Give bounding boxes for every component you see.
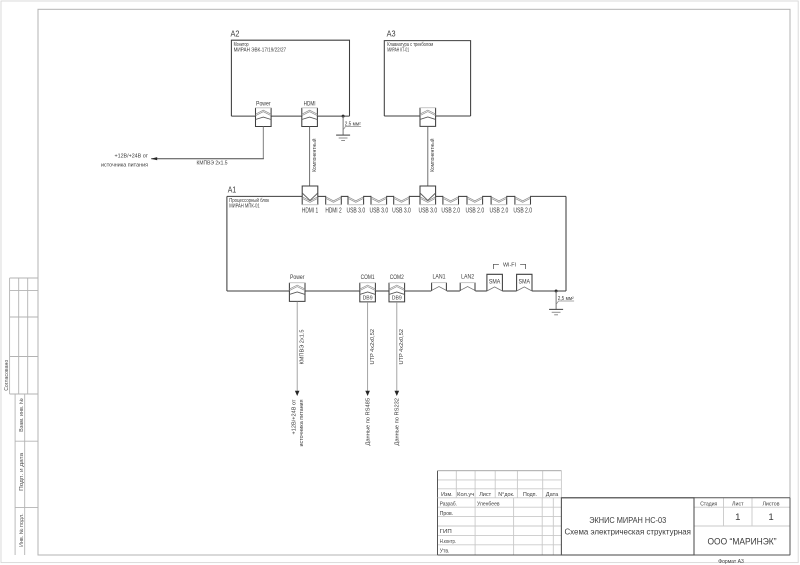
connector LAN1 socket <box>432 283 447 291</box>
svg-text:HDMI 2: HDMI 2 <box>325 207 341 214</box>
svg-text:Согласовано: Согласовано <box>4 360 10 391</box>
svg-text:COM2: COM2 <box>390 274 404 281</box>
svg-text:Листов: Листов <box>763 501 780 507</box>
svg-text:USB 3.0: USB 3.0 <box>418 207 437 214</box>
label USB 2.0 <box>441 207 460 214</box>
label data RS232 <box>395 398 401 446</box>
svg-text:Утв.: Утв. <box>440 548 450 554</box>
svg-text:КМПВЭ 2х1.5: КМПВЭ 2х1.5 <box>197 161 228 167</box>
svg-text:A3: A3 <box>387 29 396 39</box>
block A2 name text <box>234 42 287 54</box>
wire A2 power down <box>262 127 264 159</box>
title block grid <box>438 471 791 555</box>
label Power A2 <box>256 100 271 107</box>
svg-text:SMA: SMA <box>519 279 531 286</box>
svg-text:Н.контр.: Н.контр. <box>440 539 457 545</box>
block A2 monitor <box>231 40 349 116</box>
connector HDMI 1 socket on A1 top <box>302 196 318 205</box>
label COM1 <box>361 274 375 281</box>
label power source text <box>101 154 149 169</box>
label cable UTP COM2 <box>399 329 405 365</box>
label LAN1 <box>433 274 446 281</box>
label A1 <box>228 184 237 194</box>
wire COM1 cable down <box>367 302 369 391</box>
connector USB 2.0 socket on A1 top <box>515 196 531 205</box>
svg-text:UTP 4х2х0,52: UTP 4х2х0,52 <box>370 329 376 365</box>
label COM2 <box>390 274 404 281</box>
label USB 3.0 <box>392 207 411 214</box>
sheets total 1 <box>768 512 773 523</box>
svg-text:USB 2.0: USB 2.0 <box>441 207 460 214</box>
connector USB 3.0 socket on A1 top <box>371 196 387 205</box>
connector X2 A2 HDMI socket <box>302 108 318 117</box>
connector Power A1 plug <box>289 291 305 301</box>
svg-text:Инв. № подл.: Инв. № подл. <box>19 513 25 547</box>
label USB 3.0 <box>418 207 437 214</box>
label cable component HDMI <box>311 139 318 172</box>
wire COM2 cable down <box>396 302 398 391</box>
svg-text:Power: Power <box>290 274 305 281</box>
wire A1 to ground <box>555 291 557 309</box>
arrow COM1 cable <box>365 391 370 396</box>
svg-text:ГИП: ГИП <box>440 529 452 535</box>
connector USB 3.0 socket on A1 top <box>348 196 364 205</box>
svg-text:USB 3.0: USB 3.0 <box>346 207 365 214</box>
document name text <box>564 515 691 537</box>
title block header row texts <box>441 492 559 498</box>
junction A2 ground node <box>342 115 345 118</box>
svg-text:МИРАН ЭВК-17/19/22/27: МИРАН ЭВК-17/19/22/27 <box>234 48 287 54</box>
left margin column lines <box>10 278 38 555</box>
title block name box <box>561 498 694 555</box>
wire power cable down from A1 <box>296 302 298 392</box>
svg-text:Кол.уч: Кол.уч <box>457 492 474 498</box>
svg-text:LAN1: LAN1 <box>433 274 446 281</box>
wire A3 cable <box>427 127 429 187</box>
svg-text:UTP 4х2х0,52: UTP 4х2х0,52 <box>399 329 405 365</box>
svg-text:Лист: Лист <box>732 501 744 507</box>
svg-text:1: 1 <box>735 512 740 523</box>
svg-text:Взам. инв. №: Взам. инв. № <box>19 398 25 432</box>
svg-text:USB 2.0: USB 2.0 <box>465 207 484 214</box>
connector A3 plug <box>420 116 436 126</box>
company name text <box>708 536 777 546</box>
connector USB 3.0 plug mated <box>420 186 436 200</box>
label cable component A3 <box>429 139 436 172</box>
label DB9 COM2 <box>392 296 402 302</box>
svg-text:Изм.: Изм. <box>441 492 453 498</box>
wire HDMI cable <box>309 127 311 187</box>
stage sheet header texts <box>700 501 779 507</box>
svg-text:Уленбеев: Уленбеев <box>477 501 500 507</box>
svg-text:HDMI 1: HDMI 1 <box>302 207 318 214</box>
left margin label Vzam inv No <box>19 398 25 432</box>
label LAN2 <box>461 274 474 281</box>
svg-text:N°док.: N°док. <box>498 492 514 498</box>
svg-text:МИРАН КТ-01: МИРАН КТ-01 <box>387 48 409 54</box>
ground symbol A2 <box>336 135 350 140</box>
arrow power cable <box>295 391 300 396</box>
label cable UTP COM1 <box>370 329 376 365</box>
svg-text:источника питания: источника питания <box>101 162 148 168</box>
connector HDMI 2 socket on A1 top <box>326 196 342 205</box>
label A3 <box>387 29 396 39</box>
wire A2 to ground <box>342 116 344 135</box>
label USB 3.0 <box>369 207 388 214</box>
svg-text:HDMI: HDMI <box>304 100 316 107</box>
label power destination text <box>291 399 305 447</box>
junction A1 ground node <box>555 290 558 293</box>
svg-text:WI-FI: WI-FI <box>503 263 516 269</box>
connector HDMI 1 plug mated <box>302 186 318 200</box>
wire power horizontal <box>151 158 264 160</box>
connector X1 A2 Power plug <box>256 116 272 126</box>
svg-text:DB9: DB9 <box>392 296 402 302</box>
label USB 3.0 <box>346 207 365 214</box>
block A3 name text <box>387 42 433 54</box>
svg-text:1: 1 <box>768 512 773 523</box>
svg-text:Схема электрическая структурна: Схема электрическая структурная <box>564 527 691 537</box>
connector Power A1 socket <box>289 283 305 292</box>
svg-text:ООО “МАРИНЭК”: ООО “МАРИНЭК” <box>708 536 777 546</box>
label SMA 2 <box>519 279 531 286</box>
label cable KMPVE A1 power <box>300 330 306 365</box>
title block outline <box>438 471 791 555</box>
label HDMI 2 <box>325 207 341 214</box>
svg-text:Формат А3: Формат А3 <box>718 559 744 565</box>
connector USB 3.0 socket on A1 top <box>420 196 436 205</box>
connector USB 2.0 socket on A1 top <box>467 196 483 205</box>
label Power A1 <box>290 274 305 281</box>
label USB 2.0 <box>513 207 532 214</box>
svg-text:COM1: COM1 <box>361 274 375 281</box>
svg-text:+12В/+24В от: +12В/+24В от <box>115 154 149 160</box>
svg-text:A1: A1 <box>228 184 237 194</box>
connector COM1 plug DB9 <box>360 291 376 302</box>
svg-text:Данные по RS485: Данные по RS485 <box>366 398 372 446</box>
connector A3 socket <box>420 108 436 117</box>
svg-text:источника питания: источника питания <box>299 399 305 446</box>
svg-text:USB 2.0: USB 2.0 <box>490 207 509 214</box>
label 2.5mm2 A1 <box>556 296 574 304</box>
svg-text:Подп. и дата: Подп. и дата <box>19 453 25 491</box>
svg-text:+12В/+24В от: +12В/+24В от <box>291 399 297 435</box>
connector X2 A2 HDMI plug <box>302 116 318 126</box>
svg-text:USB 3.0: USB 3.0 <box>392 207 411 214</box>
svg-text:ЭКНИС МИРАН НС-03: ЭКНИС МИРАН НС-03 <box>589 515 666 525</box>
label USB 2.0 <box>465 207 484 214</box>
connector COM2 plug DB9 <box>389 291 405 302</box>
svg-text:2,5 мм²: 2,5 мм² <box>345 122 361 128</box>
svg-text:Пров.: Пров. <box>440 511 454 517</box>
block A1 name text <box>229 197 270 210</box>
svg-text:Разраб.: Разраб. <box>440 501 458 507</box>
svg-text:МИРАН МПК-01: МИРАН МПК-01 <box>229 204 260 210</box>
label SMA 1 <box>489 279 501 286</box>
svg-text:Данные по RS232: Данные по RS232 <box>395 398 401 446</box>
label WI-FI with brackets <box>493 263 525 269</box>
format A3 text <box>718 559 744 565</box>
label HDMI A2 <box>304 100 316 107</box>
svg-text:Компонентный: Компонентный <box>429 139 436 172</box>
connector COM1 socket <box>360 283 376 292</box>
svg-text:USB 2.0: USB 2.0 <box>513 207 532 214</box>
connector LAN2 socket <box>460 283 475 291</box>
label cable KMPVE power A2 <box>197 161 228 167</box>
label data RS485 <box>366 398 372 446</box>
left margin label Soglasovano <box>4 360 10 391</box>
connector SMA 1 antenna <box>487 274 503 291</box>
svg-text:USB 3.0: USB 3.0 <box>369 207 388 214</box>
connector USB 2.0 socket on A1 top <box>491 196 507 205</box>
svg-text:Стадия: Стадия <box>700 501 717 507</box>
arrow power input <box>151 157 157 160</box>
svg-text:SMA: SMA <box>489 279 501 286</box>
left margin label Inv No podl <box>19 513 25 547</box>
svg-text:DB9: DB9 <box>363 296 373 302</box>
label USB 2.0 <box>490 207 509 214</box>
svg-text:A2: A2 <box>231 29 240 39</box>
svg-text:Лист: Лист <box>479 492 491 498</box>
label HDMI 1 <box>302 207 318 214</box>
ground symbol A1 <box>549 309 563 314</box>
title block signature rows <box>440 501 500 554</box>
svg-text:Подп.: Подп. <box>523 492 537 498</box>
connector USB 3.0 socket on A1 top <box>394 196 410 205</box>
connector X1 A2 Power socket <box>256 108 272 117</box>
svg-text:КМПВЭ 2х1.5: КМПВЭ 2х1.5 <box>300 330 306 365</box>
connector COM2 socket <box>389 283 405 292</box>
svg-text:Компонентный: Компонентный <box>311 139 318 172</box>
connector SMA 2 antenna <box>517 274 532 291</box>
label A2 <box>231 29 240 39</box>
left margin label Podp i data <box>19 453 25 491</box>
svg-text:LAN2: LAN2 <box>461 274 474 281</box>
block A3 keyboard <box>384 41 470 116</box>
block A1 processor unit <box>227 196 566 291</box>
label 2.5mm2 A2 <box>343 122 361 130</box>
label DB9 COM1 <box>363 296 373 302</box>
svg-text:Дата: Дата <box>546 492 559 498</box>
sheet number 1 <box>735 512 740 523</box>
svg-text:Power: Power <box>256 100 271 107</box>
svg-text:2,5 мм²: 2,5 мм² <box>558 296 574 302</box>
arrow COM2 cable <box>395 391 400 396</box>
connector USB 2.0 socket on A1 top <box>443 196 459 205</box>
